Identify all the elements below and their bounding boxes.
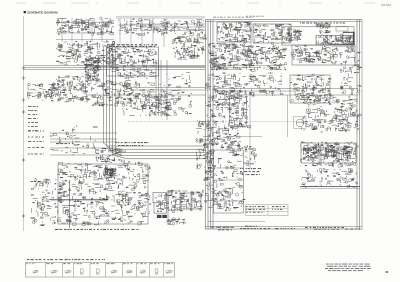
bus column components xyxy=(196,120,214,174)
power supply outline box xyxy=(282,27,354,45)
fuse cluster below transformer xyxy=(167,218,186,225)
top registration tick marks xyxy=(16,2,375,4)
labels above power amp xyxy=(56,143,149,146)
flat amp cluster xyxy=(205,73,242,107)
left page border line xyxy=(23,16,25,231)
left border register crosses xyxy=(22,66,26,218)
lower ps box xyxy=(292,45,355,65)
center note text xyxy=(240,169,261,175)
top border of right section xyxy=(205,19,362,21)
tone control wire bundle xyxy=(50,132,117,134)
output stage box 1 xyxy=(301,143,319,163)
selector box right xyxy=(230,97,247,126)
center vertical wires xyxy=(155,60,157,116)
wire bundle labels xyxy=(28,131,44,154)
rectifier block box xyxy=(343,32,355,44)
notes text block xyxy=(218,207,285,230)
center vertical wire x287 xyxy=(287,95,289,137)
regulator components xyxy=(167,190,204,213)
output ground line xyxy=(300,186,360,188)
protection circuit parts xyxy=(217,22,252,43)
regulator box 1 xyxy=(168,191,180,210)
ps top microtext xyxy=(300,22,345,24)
regulator box 3 xyxy=(192,193,201,209)
left vertical bus xyxy=(103,47,105,133)
aux input cluster xyxy=(27,83,57,101)
legend cell dividers xyxy=(45,263,47,278)
power amp components xyxy=(57,161,151,226)
ps small parts xyxy=(316,23,330,34)
tone amp cluster xyxy=(56,76,91,102)
right margin column parts xyxy=(339,46,361,95)
lower ps cluster xyxy=(291,46,338,64)
page number mark xyxy=(386,271,389,272)
dense control cluster xyxy=(208,43,255,72)
power amp section box xyxy=(58,164,148,224)
phono eq cluster xyxy=(56,41,115,65)
bus wires y87-95 xyxy=(130,87,206,89)
legend package sketches xyxy=(26,264,173,275)
preamp cluster xyxy=(206,106,240,142)
bottom border of right section xyxy=(205,226,362,228)
loudness cluster xyxy=(241,73,283,97)
volume motor circle xyxy=(294,117,307,129)
output stage box 2 xyxy=(321,143,337,163)
left margin terminal labels xyxy=(28,107,38,131)
transformer box upper xyxy=(153,193,166,203)
ps transistor cluster xyxy=(286,29,302,42)
secondary winding box xyxy=(316,35,353,44)
legend caption microtext xyxy=(27,259,105,261)
balance control cluster xyxy=(95,148,126,162)
display circuit box xyxy=(253,24,291,43)
page footnote row xyxy=(314,229,339,231)
vertical feeders top xyxy=(119,18,121,47)
center vertical wire x250 xyxy=(249,95,251,170)
power transistor dark block B xyxy=(162,215,167,218)
hline top xyxy=(116,17,205,19)
top strip wires xyxy=(140,23,205,25)
input jacks cluster xyxy=(57,17,115,35)
driver stage dark blob xyxy=(103,168,116,178)
transformer internals xyxy=(155,193,169,212)
meter board top labels xyxy=(215,141,243,151)
power amp vertical rail xyxy=(68,180,70,228)
voltage option table xyxy=(246,205,289,215)
selector box parts xyxy=(229,94,251,128)
meter board box xyxy=(214,150,244,213)
right border bus xyxy=(356,20,358,230)
bus corner to horizontal run xyxy=(104,133,206,146)
mid-left block fill parts xyxy=(116,70,192,116)
center vertical bus xyxy=(205,20,207,229)
secondary winding parts xyxy=(316,35,353,46)
dense relay driver cluster xyxy=(84,57,102,82)
parts left of rectifier xyxy=(335,34,344,41)
meter board parts xyxy=(213,151,245,211)
transformer feed wire xyxy=(167,190,169,224)
phase comp margin parts xyxy=(204,141,216,186)
power transistor dark block A xyxy=(157,215,162,218)
bus continuation right xyxy=(213,65,282,67)
wire bundle components xyxy=(50,126,97,154)
right mid cluster b xyxy=(333,101,362,133)
legend table frame xyxy=(26,263,175,278)
tone defeat parts xyxy=(291,74,334,103)
output stage box 3 xyxy=(339,143,356,163)
buffer amp cluster xyxy=(91,80,132,107)
input selector IC box xyxy=(107,47,159,76)
tone defeat box xyxy=(290,75,330,103)
record selector labels xyxy=(118,19,169,36)
transformer box lower xyxy=(154,203,166,213)
switch cluster xyxy=(251,46,287,71)
output stage dark spots xyxy=(303,146,352,161)
title SCHEMATIC DIAGRAM xyxy=(24,10,58,14)
bottom caption text row xyxy=(55,228,140,230)
right mid cluster xyxy=(300,94,359,133)
speaker relay cluster xyxy=(31,178,58,226)
input selector IC internals xyxy=(107,48,157,77)
output stage lower parts xyxy=(301,168,357,187)
mid small cluster xyxy=(244,146,256,166)
bottom annotation row xyxy=(211,227,360,229)
mid components on vertical wires xyxy=(149,94,173,116)
relay RY01 box xyxy=(336,27,348,32)
protection circuit box xyxy=(217,22,251,42)
svg-text:SCHEMATIC DIAGRAM: SCHEMATIC DIAGRAM xyxy=(27,10,58,14)
bias network dark line xyxy=(51,199,108,201)
svg-text:AX-570: AX-570 xyxy=(381,3,391,7)
speaker terminal cluster xyxy=(204,187,233,208)
regulator box 2 xyxy=(181,193,191,209)
volume control cluster xyxy=(132,91,172,113)
selector IC label band xyxy=(107,45,157,47)
footer note text xyxy=(325,264,371,272)
output stage dense parts xyxy=(300,141,358,167)
faint label row above border xyxy=(213,16,253,18)
center hwires xyxy=(230,126,250,128)
dashed center wire xyxy=(128,121,333,123)
bus wires right xyxy=(213,88,358,90)
input label row xyxy=(170,20,204,36)
display circuit parts xyxy=(253,24,291,44)
main horizontal signal bus xyxy=(24,65,205,67)
muting circuit cluster xyxy=(172,35,207,60)
note wire y221 xyxy=(208,221,265,223)
